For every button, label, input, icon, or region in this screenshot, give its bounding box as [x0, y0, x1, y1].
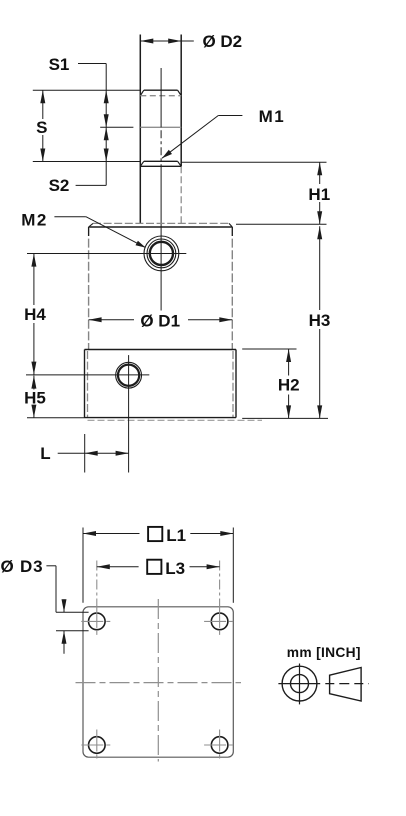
svg-text:H4: H4: [24, 305, 46, 324]
svg-text:L: L: [40, 444, 50, 463]
svg-text:S1: S1: [49, 55, 70, 74]
svg-text:Ø D2: Ø D2: [202, 32, 242, 51]
svg-text:M1: M1: [259, 107, 286, 126]
svg-text:L1: L1: [166, 526, 186, 545]
svg-text:Ø D3: Ø D3: [1, 557, 44, 576]
svg-text:H1: H1: [308, 185, 330, 204]
svg-text:M2: M2: [21, 210, 48, 229]
svg-text:L3: L3: [165, 559, 185, 578]
svg-text:S: S: [36, 118, 47, 137]
svg-text:H3: H3: [309, 311, 331, 330]
svg-text:H5: H5: [24, 389, 46, 408]
svg-text:Ø D1: Ø D1: [140, 311, 180, 330]
svg-text:mm [INCH]: mm [INCH]: [287, 645, 361, 660]
svg-text:H2: H2: [278, 375, 300, 394]
svg-text:S2: S2: [49, 176, 70, 195]
